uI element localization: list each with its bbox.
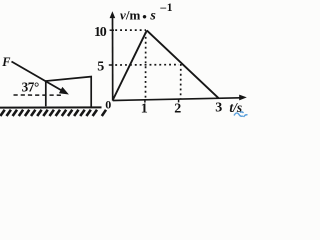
svg-text:/m: /m	[125, 7, 141, 22]
v-t rising line	[113, 30, 147, 100]
svg-text:•: •	[142, 9, 147, 24]
svg-text:1: 1	[141, 101, 148, 116]
dotted line v=10	[115, 29, 146, 31]
svg-text:5: 5	[97, 59, 104, 74]
dotted line t=1	[145, 32, 147, 99]
force arrowhead	[59, 87, 69, 95]
tick v=10	[110, 29, 114, 31]
tick t=2	[178, 99, 180, 103]
svg-text:2: 2	[174, 101, 181, 116]
tick v=5	[109, 64, 114, 66]
svg-text:3: 3	[215, 100, 222, 115]
svg-text:F: F	[1, 55, 10, 69]
v axis	[112, 15, 114, 101]
ground	[0, 106, 102, 108]
dashed horizontal reference line	[14, 94, 62, 96]
ground hatching	[0, 110, 106, 116]
svg-text:–1: –1	[159, 2, 173, 14]
svg-text:10: 10	[94, 25, 107, 40]
dotted line t=2	[180, 64, 182, 99]
dotted line v=5	[115, 64, 179, 66]
v axis arrowhead	[110, 11, 116, 18]
force arrow F line	[12, 62, 62, 91]
svg-text:s: s	[149, 8, 156, 23]
t axis	[113, 98, 240, 101]
t axis arrowhead	[239, 95, 247, 101]
svg-text:37°: 37°	[22, 80, 39, 95]
blue pen scribble bottom right	[234, 112, 248, 117]
block	[46, 77, 91, 107]
v-t falling line	[147, 30, 219, 98]
tick t=1	[144, 99, 146, 103]
svg-text:0: 0	[105, 98, 111, 112]
